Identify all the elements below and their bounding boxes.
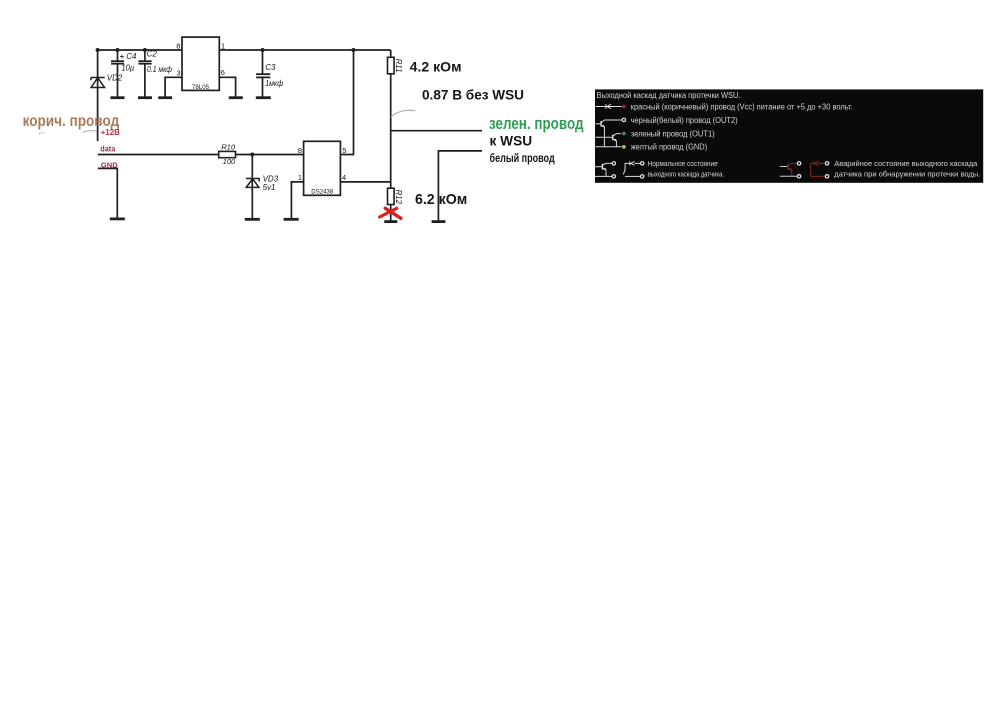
wire white lead with vertical drop — [438, 151, 482, 221]
annotation squiggle under korich — [83, 131, 97, 133]
wire green lead horizontal — [391, 130, 482, 132]
svg-text:зеленый провод (OUT1): зеленый провод (OUT1) — [631, 129, 715, 138]
ground below pin1 — [284, 218, 299, 221]
legend transistor Q-bottom — [596, 134, 622, 147]
node junction at C4 top — [116, 48, 120, 52]
legend Vcc red dot — [622, 105, 626, 109]
wire VD3 branch vertical — [251, 155, 253, 219]
legend Vcc wire symbol — [596, 104, 622, 109]
legend OUT1 green dot — [622, 132, 626, 136]
ground below C3 — [256, 96, 271, 99]
node junction at pin5 riser — [352, 48, 356, 52]
capacitor C2 — [138, 50, 151, 97]
wire pin1 to ground — [291, 182, 303, 219]
legend alarm transistor rings — [797, 162, 800, 165]
ground below R12 — [384, 220, 397, 223]
node junction at C3 top — [261, 48, 265, 52]
svg-text:Нормальное состояние: Нормальное состояние — [648, 159, 718, 168]
wire pin5 riser — [340, 50, 353, 155]
annotation squiggle near R11 — [391, 110, 416, 117]
legend normal switch with diode — [623, 161, 640, 176]
resistor R10 — [219, 151, 236, 157]
annotation squiggle under korich part2 — [38, 132, 45, 135]
wire GND stub — [98, 168, 118, 218]
ground below pin3 — [158, 96, 172, 99]
node junction at VD2 top — [96, 48, 100, 52]
svg-text:Выходной каскад датчика протеч: Выходной каскад датчика протечки WSU. — [597, 91, 741, 100]
legend normal switch rings — [641, 162, 644, 165]
regulator U1 78L05 box — [182, 37, 219, 90]
ground below white lead — [432, 220, 446, 223]
IC U2 DS2438 box — [304, 141, 341, 195]
wire data line — [98, 154, 219, 156]
zener diode VD3 — [246, 179, 259, 188]
svg-text:датчика при обнаружении протеч: датчика при обнаружении протечки воды. — [834, 170, 980, 179]
wire R12 to ground — [390, 205, 392, 221]
legend GND yellow dot — [622, 145, 626, 149]
legend normal transistor rings — [612, 162, 615, 165]
ground below pin6 — [229, 96, 243, 99]
wire pin6 to ground — [219, 77, 235, 97]
svg-text:черный(белый) провод (OUT2): черный(белый) провод (OUT2) — [631, 116, 738, 125]
ground below C2 — [138, 96, 152, 99]
capacitor C3 — [256, 50, 270, 97]
legend normal transistor symbol — [595, 163, 612, 176]
svg-text:выходного каскада датчика.: выходного каскада датчика. — [648, 170, 724, 179]
legend alarm transistor symbol — [780, 163, 798, 176]
ground below VD3 — [245, 218, 260, 221]
legend alarm closed switch with diode — [811, 161, 826, 176]
node junction at C2 top — [143, 48, 147, 52]
wire pin4 to R12 branch — [340, 181, 390, 183]
ground below GND stub — [110, 217, 125, 220]
legend OUT2 white ring — [622, 118, 625, 121]
wire VD2 branch vertical — [97, 49, 99, 141]
wire pin3 to ground — [165, 77, 182, 97]
wire top rail left segment — [98, 49, 182, 51]
svg-text:красный (коричневый) провод (V: красный (коричневый) провод (Vcc) питани… — [631, 103, 853, 112]
resistor R11 — [388, 57, 395, 74]
resistor R12 — [388, 188, 395, 204]
diode VD2 — [91, 78, 105, 88]
capacitor C4 — [111, 50, 124, 97]
legend alarm switch rings — [825, 162, 828, 165]
legend black panel — [595, 89, 983, 182]
legend GND wire symbol — [596, 146, 622, 148]
legend transistor Q-top — [596, 120, 622, 147]
wire R11 R12 vertical branch — [390, 50, 392, 188]
wire top rail right segment — [219, 49, 390, 51]
svg-text:Аварийное состояние выходного: Аварийное состояние выходного каскада — [834, 159, 977, 168]
ground below C4 — [111, 96, 125, 99]
svg-text:желтый провод (GND): желтый провод (GND) — [631, 142, 708, 151]
red X cross mark — [380, 208, 401, 218]
wire R10 to DS2438 pin8 — [236, 154, 304, 156]
node junction at VD3 top — [250, 153, 254, 157]
